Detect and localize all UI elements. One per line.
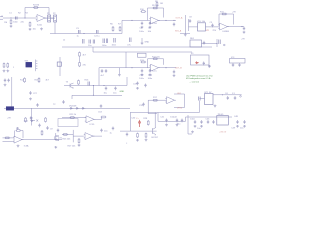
capacitor C45 xyxy=(200,120,202,124)
svg-text:→ see text: → see text xyxy=(189,80,199,83)
wire stage1 input xyxy=(3,17,36,19)
capacitor C5 xyxy=(141,22,143,26)
battery box xyxy=(205,94,214,105)
capacitor C12 xyxy=(89,40,90,44)
resistor R1 xyxy=(10,19,12,25)
op-amp IC1B xyxy=(149,17,160,24)
capacitor C28 xyxy=(88,82,89,86)
svg-text:C46: C46 xyxy=(206,118,211,120)
capacitor C3 xyxy=(79,30,81,34)
svg-text:100n: 100n xyxy=(139,31,144,33)
resistor R4 xyxy=(33,7,39,9)
ground xyxy=(3,70,6,73)
ground xyxy=(29,28,32,31)
capacitor C43 xyxy=(181,119,183,123)
ground xyxy=(10,25,13,28)
ground xyxy=(176,124,179,127)
wire BR-A out xyxy=(202,39,218,47)
wire stage3 out xyxy=(158,67,176,69)
ground xyxy=(136,139,139,142)
svg-text:IC1B: IC1B xyxy=(152,23,157,25)
capacitor C9 xyxy=(211,24,213,28)
node M xyxy=(103,85,104,86)
svg-text:C6: C6 xyxy=(148,28,152,30)
svg-text:R17: R17 xyxy=(153,97,158,99)
svg-text:IC1D: IC1D xyxy=(90,124,95,126)
wire left riser xyxy=(11,77,13,108)
wire rail W2 xyxy=(93,47,192,52)
svg-text:C53: C53 xyxy=(98,112,103,114)
capacitor C8 xyxy=(189,19,191,23)
node B xyxy=(48,17,49,18)
wire bm top xyxy=(62,117,86,119)
node H xyxy=(216,43,217,44)
wire bm out xyxy=(93,117,101,119)
capacitor C38 xyxy=(100,129,102,133)
op-amp IC2 xyxy=(218,23,229,30)
ground xyxy=(149,26,152,29)
loop BR-B xyxy=(191,55,210,65)
resistor R21 xyxy=(5,137,11,139)
wire riser xyxy=(180,15,190,34)
capacitor C15 xyxy=(106,39,107,44)
svg-text:R15: R15 xyxy=(35,80,40,82)
ground xyxy=(17,145,20,148)
op-amp IC1A xyxy=(36,15,47,22)
loop stage4 xyxy=(174,94,185,108)
svg-text:4k7: 4k7 xyxy=(46,80,50,82)
capacitor C18 xyxy=(203,41,205,45)
ground xyxy=(78,144,81,147)
wire rail W1 xyxy=(62,46,212,48)
capacitor C21 xyxy=(232,63,234,67)
svg-text:P2: P2 xyxy=(53,13,56,15)
svg-text:C33: C33 xyxy=(139,105,144,107)
transistor Q2 xyxy=(56,133,59,141)
svg-text:10u: 10u xyxy=(104,131,108,133)
svg-text:R6: R6 xyxy=(110,24,114,26)
diode D6 xyxy=(76,107,80,109)
capacitor C40 xyxy=(126,133,128,137)
svg-text:GND: GND xyxy=(145,42,150,44)
svg-text:C8: C8 xyxy=(189,17,193,19)
wire stage2 in xyxy=(124,19,150,21)
terminal circle 2 xyxy=(240,96,242,98)
op-amp IC4 xyxy=(165,97,176,104)
ground op-amp1 xyxy=(40,28,43,31)
capacitor C50 xyxy=(199,97,200,101)
capacitor C46 xyxy=(207,120,209,124)
svg-text:R12 10k: R12 10k xyxy=(152,56,161,58)
wire BR-B down xyxy=(208,65,210,68)
ground xyxy=(149,73,152,76)
svg-text:C41: C41 xyxy=(160,117,165,119)
capacitor C14 xyxy=(103,39,104,44)
wire stage4 in xyxy=(148,99,166,101)
capacitor C36 xyxy=(46,126,48,130)
svg-text:C+: C+ xyxy=(136,118,140,120)
component edge xyxy=(62,100,64,104)
connector J1 pins xyxy=(0,17,3,19)
svg-text:R14: R14 xyxy=(20,80,25,82)
wire feedback up xyxy=(25,8,49,19)
ground xyxy=(243,125,246,128)
node R xyxy=(93,95,94,96)
ground xyxy=(141,42,144,45)
ground xyxy=(194,125,197,128)
capacitor C26 xyxy=(4,79,6,83)
svg-text:+9V: +9V xyxy=(7,118,11,120)
svg-text:1u: 1u xyxy=(77,36,80,38)
svg-text:OUT_A: OUT_A xyxy=(176,17,184,20)
svg-text:R23 1k: R23 1k xyxy=(70,114,78,116)
node A xyxy=(24,17,25,18)
wire pw right xyxy=(158,113,232,122)
svg-text:+9V: +9V xyxy=(241,39,245,41)
resistor R20 xyxy=(16,130,22,132)
svg-text:P1: P1 xyxy=(47,13,50,15)
wire rail pw xyxy=(130,112,199,114)
capacitor C24 xyxy=(149,69,151,73)
capacitor C22 xyxy=(238,63,240,67)
svg-text:10k: 10k xyxy=(33,28,37,30)
resistor R14 xyxy=(24,77,26,83)
capacitor C49 xyxy=(243,120,245,124)
capacitor C17 xyxy=(130,38,132,43)
resistor R17 xyxy=(153,99,159,101)
capacitor C33 xyxy=(142,103,144,107)
svg-text:47k: 47k xyxy=(83,65,87,67)
ground xyxy=(191,131,194,134)
op-amp IC6 xyxy=(85,116,96,123)
wire right row2 xyxy=(59,57,61,76)
svg-text:C27: C27 xyxy=(33,93,38,95)
box LFO xyxy=(58,119,78,127)
svg-text:1u: 1u xyxy=(110,133,113,135)
svg-text:C49: C49 xyxy=(231,128,236,130)
capacitor C19 xyxy=(219,40,220,45)
box BR-A xyxy=(190,40,202,47)
wire out bl xyxy=(21,139,62,141)
svg-text:=: = xyxy=(126,143,128,145)
capacitor C34 xyxy=(30,116,32,120)
svg-text:R2: R2 xyxy=(18,13,22,15)
svg-text:78L05: 78L05 xyxy=(218,114,225,116)
ground xyxy=(141,26,144,29)
svg-text:C23: C23 xyxy=(140,75,145,77)
diode D7 xyxy=(82,107,86,109)
svg-text:R10: R10 xyxy=(140,9,145,11)
resistor R10 xyxy=(141,11,147,13)
capacitor C30 xyxy=(114,87,116,91)
resistor R30 xyxy=(145,133,147,139)
svg-text:100n: 100n xyxy=(112,45,117,47)
wire fb bl xyxy=(15,131,24,139)
wire output stage1 xyxy=(44,17,55,19)
transistor Q1 xyxy=(70,83,74,88)
wire br edge xyxy=(188,115,192,134)
resistor R13 xyxy=(141,61,147,63)
wire stage4 down xyxy=(148,100,157,113)
svg-text:1N4148: 1N4148 xyxy=(69,105,77,107)
ground xyxy=(173,74,176,77)
ground xyxy=(54,146,57,149)
capacitor C11 xyxy=(83,39,85,44)
capacitor C44 xyxy=(194,120,196,124)
node P xyxy=(55,139,56,140)
svg-text:R9 10k: R9 10k xyxy=(152,5,160,7)
node D xyxy=(131,20,132,21)
wire drop xyxy=(30,108,32,125)
node G xyxy=(241,26,242,27)
capacitor C4 xyxy=(97,30,99,34)
svg-text:C48: C48 xyxy=(234,116,239,118)
svg-text:22k: 22k xyxy=(21,22,25,24)
svg-text:100n: 100n xyxy=(102,45,107,47)
resistor R22 xyxy=(41,130,43,136)
svg-text:J1: J1 xyxy=(1,16,4,18)
resistor R15 xyxy=(38,77,40,83)
svg-text:10u: 10u xyxy=(240,128,244,130)
wire jack to bus xyxy=(54,22,56,34)
ground xyxy=(208,65,211,68)
resistor R16 xyxy=(78,80,80,86)
ground xyxy=(29,98,32,101)
resistor R32 xyxy=(138,53,147,57)
resistor R29 xyxy=(137,133,139,139)
resistor R7 xyxy=(119,26,121,32)
capacitor C10 xyxy=(243,27,245,31)
connector X1 xyxy=(48,15,51,22)
svg-text:C24: C24 xyxy=(148,75,153,77)
ground xyxy=(236,125,239,128)
transistor Q3 xyxy=(153,128,156,136)
svg-text:R7: R7 xyxy=(118,24,122,26)
svg-text:R25 10k: R25 10k xyxy=(63,139,72,141)
wire mid row3b xyxy=(72,95,122,99)
capacitor C16 xyxy=(114,38,115,43)
svg-text:10u: 10u xyxy=(113,92,117,94)
ground xyxy=(118,74,121,77)
resistor R9 xyxy=(153,7,159,9)
capacitor C58 xyxy=(112,127,114,131)
connector X2 xyxy=(54,15,57,22)
wire long row4 xyxy=(4,107,130,109)
resistor R25 xyxy=(63,134,69,136)
component C35 xyxy=(38,124,40,128)
resistor R6 xyxy=(112,26,114,32)
resistor R24 xyxy=(101,116,107,118)
svg-text:10k: 10k xyxy=(148,31,152,33)
loop BR-C xyxy=(230,59,246,64)
capacitor C41 xyxy=(165,119,167,123)
svg-text:BC337: BC337 xyxy=(152,137,159,139)
ground xyxy=(165,124,168,127)
capacitor C32 xyxy=(144,84,146,88)
svg-text:R16: R16 xyxy=(85,79,90,81)
capacitor C7 xyxy=(173,23,175,27)
resistor R28 xyxy=(147,120,149,126)
resistor R11 xyxy=(222,13,228,15)
capacitor C57 xyxy=(105,69,107,73)
node J xyxy=(165,67,166,68)
capacitor C23 xyxy=(141,69,143,73)
node E xyxy=(165,20,166,21)
resistor Rrow2b xyxy=(7,63,9,69)
svg-text:VOL 10k: VOL 10k xyxy=(197,21,206,23)
svg-text:D1: D1 xyxy=(30,118,34,120)
wire batt left xyxy=(199,98,204,112)
svg-text:1M: 1M xyxy=(4,22,7,24)
regulator IC8 xyxy=(217,116,229,126)
wire bus mid xyxy=(50,20,124,33)
node F xyxy=(173,20,174,21)
ground xyxy=(136,87,139,90)
resistor Rrow2a xyxy=(3,63,5,69)
svg-text:C1: C1 xyxy=(9,13,13,15)
op-amp IC1C xyxy=(149,64,160,71)
connector X3 filled xyxy=(6,107,14,111)
svg-text:C9: C9 xyxy=(50,129,54,131)
node I xyxy=(131,67,132,68)
capacitor C55 xyxy=(36,103,38,107)
wire stage3 in xyxy=(99,52,150,86)
capacitor C48 xyxy=(236,120,238,124)
ground xyxy=(184,34,187,37)
capacitor C56 xyxy=(101,69,103,73)
svg-text:T2: T2 xyxy=(53,104,56,106)
wire topright in xyxy=(189,19,198,31)
potentiometer P1 box xyxy=(198,23,206,31)
svg-text:LM386: LM386 xyxy=(223,31,230,33)
capacitor C53 xyxy=(100,104,102,108)
svg-text:1M: 1M xyxy=(160,3,163,5)
ground xyxy=(4,84,7,87)
svg-text:BT1 9V: BT1 9V xyxy=(205,92,213,94)
wire bm2 out xyxy=(92,135,102,137)
jack tick 1 xyxy=(48,17,50,21)
diode D5 xyxy=(70,107,74,109)
node Q xyxy=(222,94,223,95)
resistor R26 xyxy=(78,138,80,144)
svg-text:100n: 100n xyxy=(148,78,153,80)
svg-text:C4 1u: C4 1u xyxy=(94,36,100,38)
resistor R33 xyxy=(79,52,81,58)
resistor R12 xyxy=(153,58,159,60)
svg-text:OUT_B: OUT_B xyxy=(175,67,183,69)
resistor R34 xyxy=(79,62,81,68)
capacitor C51 xyxy=(227,96,229,100)
terminal circle xyxy=(224,44,226,46)
wire R33-R34 xyxy=(79,57,81,61)
wire stage3 feedback xyxy=(148,59,164,68)
svg-text:GND: GND xyxy=(120,91,125,93)
capacitor C29 xyxy=(105,87,107,91)
wire bus row3 xyxy=(64,77,127,86)
capacitor C25 xyxy=(173,70,175,74)
svg-text:SIG_A: SIG_A xyxy=(175,30,182,33)
svg-text:R3: R3 xyxy=(25,13,29,15)
capacitor C54 xyxy=(7,79,9,83)
svg-text:47u: 47u xyxy=(177,124,181,126)
wire batt right xyxy=(213,94,242,96)
ground xyxy=(6,70,9,73)
svg-text:J2: J2 xyxy=(63,40,66,42)
capacitor C42 xyxy=(176,119,178,123)
svg-text:IC1C: IC1C xyxy=(152,71,157,73)
capacitor C52 xyxy=(234,96,236,100)
node IN xyxy=(10,17,11,18)
svg-text:T3: T3 xyxy=(66,81,69,83)
component K1 xyxy=(57,62,61,66)
svg-text:+9V: +9V xyxy=(232,12,236,14)
svg-text:R4 1M: R4 1M xyxy=(33,5,39,7)
ground xyxy=(214,105,217,108)
ground xyxy=(16,127,19,130)
wire stage2 feedback xyxy=(148,8,164,20)
wire feedback IC2 xyxy=(219,14,234,26)
connector SV1 filled xyxy=(26,62,32,67)
capacitor C2 xyxy=(16,17,18,20)
svg-text:4k7: 4k7 xyxy=(83,55,87,57)
ground xyxy=(200,125,203,128)
wire decouple xyxy=(141,38,143,42)
svg-text:IC1A: IC1A xyxy=(37,24,42,27)
resistor R18 xyxy=(25,117,27,123)
wire drop x119 xyxy=(118,68,120,74)
diode D4 xyxy=(30,120,35,122)
wire between jacks xyxy=(51,17,54,19)
ground xyxy=(141,73,144,76)
svg-text:VR: VR xyxy=(206,30,209,32)
svg-text:R27 10k: R27 10k xyxy=(68,146,77,148)
resistor R5 xyxy=(29,22,31,28)
capacitor C47 xyxy=(212,120,214,124)
capacitor C20 xyxy=(203,62,205,66)
svg-text:R28: R28 xyxy=(143,118,148,120)
wire link rows xyxy=(92,86,94,96)
svg-text:LFO: LFO xyxy=(177,93,181,95)
svg-text:C3: C3 xyxy=(76,28,80,30)
svg-text:4R loudspeaker max 0.5 A: 4R loudspeaker max 0.5 A xyxy=(186,77,211,80)
resistor R31 xyxy=(70,117,76,119)
wire Q3 collector xyxy=(154,113,156,128)
svg-text:100n: 100n xyxy=(139,78,144,80)
diode D3 xyxy=(36,120,38,122)
resistor R19 xyxy=(45,117,47,123)
svg-text:47u: 47u xyxy=(127,45,131,47)
capacitor C39 red xyxy=(138,120,141,127)
ground xyxy=(145,139,148,142)
capacitor C27 xyxy=(29,91,31,95)
wire pw left drop xyxy=(130,113,132,132)
resistor R8 xyxy=(156,2,158,8)
capacitor C6 xyxy=(149,22,151,26)
svg-text:LFO2: LFO2 xyxy=(177,108,183,110)
wire inputs bl xyxy=(3,138,13,141)
node L xyxy=(93,85,94,86)
node C xyxy=(83,33,84,34)
svg-text:10u: 10u xyxy=(197,128,201,130)
svg-text:100n: 100n xyxy=(13,22,18,24)
capacitor C31 xyxy=(136,82,138,86)
svg-text:10u: 10u xyxy=(104,92,108,94)
wire out IC2 xyxy=(227,26,244,28)
connector pins xyxy=(36,60,38,72)
svg-text:1: 1 xyxy=(13,67,15,69)
wire bm2 in xyxy=(62,130,84,142)
svg-text:+5V ref: +5V ref xyxy=(219,131,226,134)
